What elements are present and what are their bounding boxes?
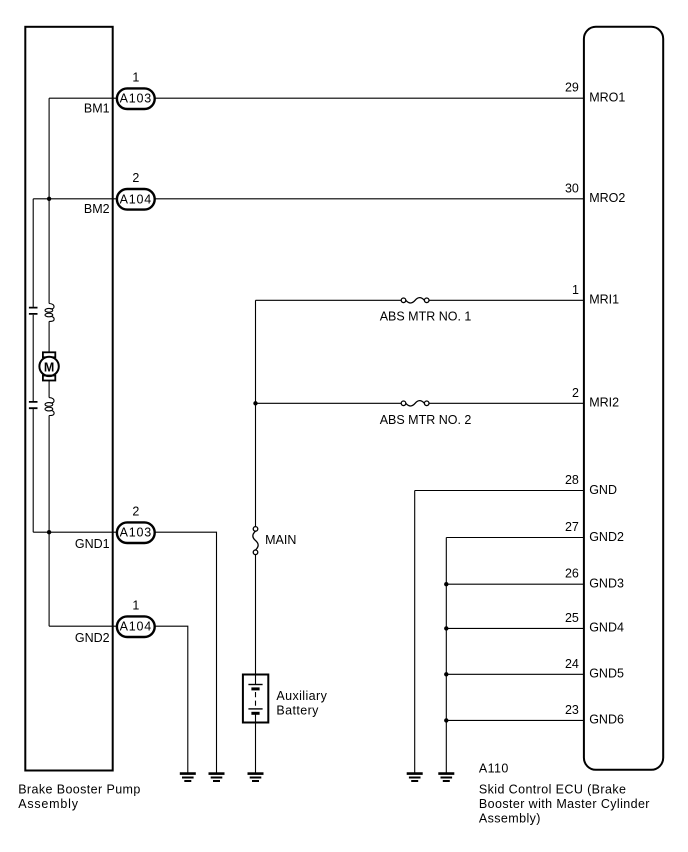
battery box (243, 675, 268, 723)
svg-text:BM1: BM1 (84, 101, 110, 115)
wire capacitor branch upper (32, 199, 34, 307)
ground GND2 connector (180, 774, 196, 781)
svg-text:GND: GND (589, 483, 617, 497)
Brake Booster Pump Assembly box (25, 27, 112, 771)
svg-text:M: M (44, 361, 54, 375)
svg-text:A110: A110 (479, 761, 509, 775)
wire battery to ground (255, 724, 257, 773)
svg-text:A104: A104 (120, 192, 152, 206)
svg-text:1: 1 (132, 70, 139, 84)
svg-text:30: 30 (565, 181, 579, 195)
wire MRI1 to ECU (429, 299, 584, 301)
svg-text:Skid Control ECU (Brake: Skid Control ECU (Brake (479, 783, 626, 797)
inductor L1 (45, 304, 54, 322)
svg-text:Auxiliary: Auxiliary (276, 689, 327, 703)
ground battery (248, 774, 264, 781)
wire BM2 internal horizontal (33, 198, 116, 200)
connector A103 pin1 oval (117, 88, 155, 109)
node GND4 junction (444, 626, 448, 630)
wire GND6 pin 23 (446, 719, 583, 721)
svg-text:2: 2 (132, 171, 139, 185)
wire GND1 from connector to drop (155, 532, 217, 773)
svg-text:GND1: GND1 (75, 537, 110, 551)
connector A104 pin2 oval (117, 189, 155, 210)
capacitor C1 (29, 308, 38, 314)
fuse ABS MTR NO.1 (401, 298, 429, 303)
wire GND3 pin 26 (446, 583, 583, 585)
svg-text:28: 28 (565, 473, 579, 487)
wire MRO2 from connector to ECU (155, 198, 584, 200)
motor M circle (39, 357, 58, 376)
svg-text:MRO1: MRO1 (589, 91, 625, 105)
svg-text:ABS MTR NO. 2: ABS MTR NO. 2 (380, 413, 472, 427)
wire battery feed lower (255, 555, 257, 674)
svg-text:GND5: GND5 (589, 667, 624, 681)
wire BM1 internal horizontal (49, 97, 116, 99)
svg-text:1: 1 (572, 283, 579, 297)
svg-text:2: 2 (132, 504, 139, 518)
wire BM1 to BM2 vertical (48, 98, 50, 199)
svg-text:MRI2: MRI2 (589, 396, 619, 410)
fuse ABS MTR NO.2 (401, 401, 429, 406)
wire GND2 pin 27 (446, 537, 583, 539)
node GND6 junction (444, 718, 448, 722)
ground GND pin28 (407, 774, 423, 781)
wire MRI1 horizontal left (256, 299, 402, 301)
motor M brush bottom (43, 376, 55, 381)
svg-text:27: 27 (565, 520, 579, 534)
svg-text:GND4: GND4 (589, 621, 624, 635)
node GND5 junction (444, 672, 448, 676)
capacitor C2 (29, 402, 38, 408)
svg-text:1: 1 (132, 598, 139, 612)
svg-text:Assembly): Assembly) (479, 812, 541, 826)
svg-text:Brake Booster Pump: Brake Booster Pump (18, 783, 141, 797)
svg-text:23: 23 (565, 703, 579, 717)
wire GND4 pin 25 (446, 627, 583, 629)
node GND1 junction (47, 530, 51, 534)
node MRI2 junction (253, 401, 257, 405)
svg-text:GND3: GND3 (589, 577, 624, 591)
wire GND2 internal horizontal (49, 625, 116, 627)
wire capacitor branch lower (32, 409, 34, 532)
svg-text:A104: A104 (120, 620, 152, 634)
wire motor branch upper (48, 199, 50, 304)
wire motor branch GND1 to GND2 (48, 532, 50, 626)
svg-text:Assembly: Assembly (18, 797, 79, 811)
motor M brush top (43, 352, 55, 357)
wire MRI2 to ECU (429, 402, 584, 404)
wire MRO1 from connector to ECU (155, 97, 584, 99)
svg-text:MRO2: MRO2 (589, 191, 625, 205)
wire GND2 pin 27 drop (445, 538, 447, 773)
fuse MAIN (253, 527, 258, 555)
connector A103 pin2 oval (117, 522, 155, 543)
Skid Control ECU box (584, 27, 663, 770)
svg-text:GND6: GND6 (589, 713, 624, 727)
inductor L2 (45, 398, 54, 416)
wire capacitor branch middle (32, 315, 34, 401)
svg-text:29: 29 (565, 81, 579, 95)
svg-text:A103: A103 (120, 92, 152, 106)
wire battery feed upper (255, 403, 257, 526)
wire GND2 from connector to drop (155, 626, 188, 773)
svg-text:2: 2 (572, 386, 579, 400)
svg-text:A103: A103 (120, 526, 152, 540)
node BM2 junction (47, 197, 51, 201)
svg-text:25: 25 (565, 611, 579, 625)
wire motor branch above motor (48, 321, 50, 352)
svg-text:24: 24 (565, 657, 579, 671)
ground GND2 pin27 (438, 774, 454, 781)
svg-text:BM2: BM2 (84, 202, 110, 216)
svg-text:MAIN: MAIN (265, 533, 296, 547)
svg-text:26: 26 (565, 567, 579, 581)
wire GND1 internal horizontal (33, 531, 116, 533)
wire MRI1 drop to MRI2 (255, 300, 257, 403)
connector A104 pin1 oval (117, 616, 155, 637)
wire GND pin 28 (415, 490, 584, 492)
svg-text:GND2: GND2 (589, 530, 624, 544)
ground GND1 connector (209, 774, 225, 781)
node GND3 junction (444, 582, 448, 586)
wire MRI2 horizontal left (256, 402, 402, 404)
svg-text:ABS MTR NO. 1: ABS MTR NO. 1 (380, 310, 472, 324)
svg-text:Booster with Master Cylinder: Booster with Master Cylinder (479, 797, 650, 811)
battery internals (248, 674, 262, 724)
wire motor branch to GND1 (48, 416, 50, 533)
wire GND5 pin 24 (446, 673, 583, 675)
wire motor branch below motor (48, 381, 50, 398)
svg-text:GND2: GND2 (75, 631, 110, 645)
wire GND pin 28 drop (414, 491, 416, 773)
svg-text:MRI1: MRI1 (589, 293, 619, 307)
svg-text:Battery: Battery (276, 703, 319, 717)
